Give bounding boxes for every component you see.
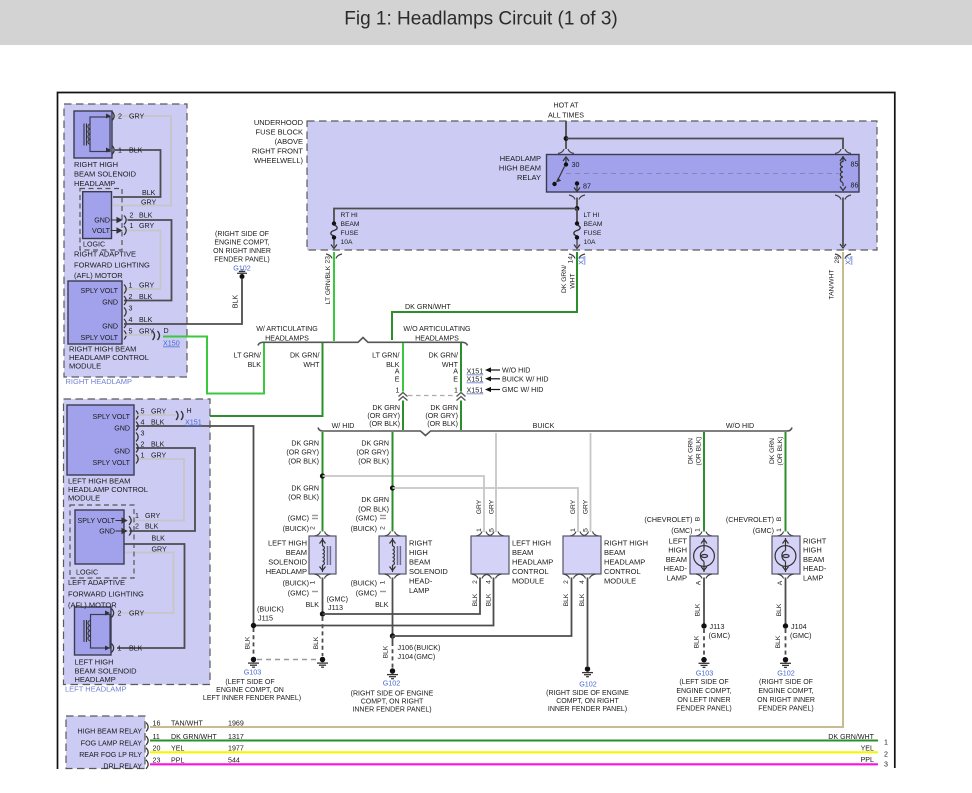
wire LT GRN/BLK from RT fuse down to brace (333, 252, 335, 341)
wire BLK module pin4 to ground G102 (124, 279, 242, 324)
wire BLK left module pin4 across to J115 (254, 578, 494, 626)
wire DK GRN/WHT branch to X151 inline (460, 343, 462, 392)
svg-text:WHEELWELL): WHEELWELL) (254, 156, 304, 165)
svg-text:BLK: BLK (248, 361, 262, 369)
connector entries at solenoid tops (315, 532, 331, 537)
inline connector X151 left chevrons (399, 393, 408, 401)
dashed BLK from J113 to ground (322, 617, 324, 656)
svg-text:DK GRN: DK GRN (361, 440, 389, 448)
svg-text:1: 1 (118, 645, 122, 653)
svg-text:BEAM: BEAM (803, 555, 824, 564)
pin arcs on relay block (146, 723, 148, 732)
svg-text:4: 4 (486, 580, 493, 584)
svg-text:FENDER PANEL): FENDER PANEL) (214, 257, 270, 264)
svg-text:BUICK W/ HID: BUICK W/ HID (502, 375, 549, 383)
lamp L3: left high beam solenoid headlamp (GMC/Buick) (309, 536, 336, 574)
svg-text:FOG LAMP RELAY: FOG LAMP RELAY (81, 740, 143, 748)
module U4: left high beam headlamp control module (mid) (471, 536, 509, 574)
svg-text:(GMC): (GMC) (356, 515, 377, 523)
junction on branch 1 (320, 473, 325, 478)
wire row 11 DK GRN/WHT 1317 (150, 740, 878, 742)
svg-text:(OR BLK): (OR BLK) (358, 458, 389, 466)
svg-text:2: 2 (130, 212, 134, 220)
wire LT GRN/BLK from X150 to brace (163, 337, 264, 394)
left headlamp assembly box (64, 399, 211, 685)
svg-text:4: 4 (141, 419, 145, 427)
svg-text:GRY: GRY (152, 546, 168, 554)
svg-text:B: B (776, 516, 783, 521)
svg-text:DK GRN: DK GRN (430, 404, 458, 412)
svg-text:GND: GND (99, 528, 115, 536)
ground G102 (under right module) (582, 666, 593, 676)
svg-text:WHT: WHT (570, 273, 577, 288)
lamp L2: left high beam solenoid headlamp (75, 607, 114, 655)
svg-text:(LEFT SIDE OF: (LEFT SIDE OF (679, 679, 728, 686)
wire DK GRN/WHT from LT fuse down and across (392, 252, 577, 340)
connector entries at module tops (476, 532, 492, 537)
svg-text:(AFL) MOTOR: (AFL) MOTOR (74, 271, 123, 280)
svg-text:LT GRN/: LT GRN/ (234, 352, 261, 360)
svg-text:Fig 1: Headlamps Circuit (1 of: Fig 1: Headlamps Circuit (1 of 3) (344, 9, 618, 30)
wire BLK right module pin2 across to J106 (393, 578, 572, 637)
lamp L4: right high beam solenoid headlamp (GMC/Buick) (379, 536, 406, 574)
svg-text:28: 28 (834, 256, 841, 264)
svg-text:BLK: BLK (245, 636, 252, 649)
svg-text:LAMP: LAMP (803, 573, 823, 582)
connector exit below relay pin 86 (835, 195, 851, 200)
svg-text:1: 1 (884, 739, 888, 747)
svg-text:RIGHT FRONT: RIGHT FRONT (252, 147, 304, 156)
svg-text:GRY: GRY (129, 610, 145, 618)
svg-text:GND: GND (94, 217, 110, 225)
svg-text:2: 2 (380, 526, 387, 530)
svg-text:COMPT, ON RIGHT: COMPT, ON RIGHT (556, 698, 619, 705)
svg-text:HEAD-: HEAD- (664, 564, 688, 573)
connector entry at relay pin 85 (835, 149, 851, 154)
wire: feed into relay pin 30 (565, 121, 567, 149)
svg-text:DK GRN/: DK GRN/ (561, 265, 568, 293)
dashed connector tie line (408, 395, 456, 397)
power feed HOT AT ALL TIMES (548, 102, 584, 120)
svg-text:GND: GND (102, 299, 118, 307)
svg-text:YEL: YEL (171, 745, 184, 753)
svg-text:GRY: GRY (145, 512, 161, 520)
svg-text:(OR GRY): (OR GRY) (367, 412, 400, 420)
svg-text:G103: G103 (696, 669, 714, 678)
svg-text:BEAM: BEAM (286, 548, 307, 557)
wire down to LT HI BEAM FUSE (576, 209, 578, 222)
svg-text:3: 3 (884, 761, 888, 769)
svg-text:DK GRN: DK GRN (688, 438, 695, 464)
svg-text:CONTROL: CONTROL (604, 567, 641, 576)
svg-text:GMC W/ HID: GMC W/ HID (502, 386, 543, 394)
svg-text:(OR GRY): (OR GRY) (286, 449, 319, 457)
svg-text:A: A (453, 368, 458, 376)
svg-text:B: B (695, 516, 702, 521)
svg-text:SPLY VOLT: SPLY VOLT (81, 287, 119, 295)
ground G102 (under right head-lamp) (780, 657, 791, 667)
svg-text:(OR BLK): (OR BLK) (369, 420, 400, 428)
svg-text:RIGHT: RIGHT (409, 539, 433, 548)
svg-text:4: 4 (129, 316, 133, 324)
wire GRY AFL stub to solenoid pin2 (117, 553, 174, 614)
svg-text:X150: X150 (163, 339, 180, 348)
svg-text:J104: J104 (398, 652, 414, 661)
svg-text:1: 1 (570, 528, 577, 532)
dashed BLK from J115 to ground (253, 628, 255, 656)
svg-text:(OR BLK): (OR BLK) (427, 420, 458, 428)
svg-text:20: 20 (153, 745, 161, 753)
svg-text:(OR BLK): (OR BLK) (288, 458, 319, 466)
junction on branch 2 (390, 485, 395, 490)
relay switch arm (558, 167, 565, 180)
svg-text:BLK: BLK (313, 636, 320, 649)
svg-text:ENGINE COMPT,: ENGINE COMPT, (676, 688, 731, 695)
ground G103 (under left head-lamp) (699, 657, 710, 667)
svg-text:FENDER PANEL): FENDER PANEL) (758, 706, 814, 713)
underhood fuse block (307, 121, 877, 250)
svg-text:2: 2 (129, 293, 133, 301)
svg-text:G102: G102 (777, 669, 795, 678)
outer schematic border (58, 93, 895, 770)
svg-text:1: 1 (380, 580, 387, 584)
svg-text:(BUICK): (BUICK) (283, 580, 309, 588)
svg-text:2: 2 (118, 113, 122, 121)
off-page labels right (828, 733, 874, 764)
svg-text:2: 2 (472, 580, 479, 584)
connector exit below relay pin 87 (569, 195, 585, 200)
brace: articulating headlamps split (258, 338, 468, 346)
svg-text:J115: J115 (258, 614, 273, 623)
svg-text:DK GRN: DK GRN (769, 438, 776, 464)
wire GRY solenoid pin2 to logic (113, 116, 171, 206)
svg-text:(OR BLK): (OR BLK) (777, 437, 784, 466)
svg-text:2: 2 (141, 441, 145, 449)
svg-text:H: H (187, 407, 192, 415)
svg-text:BEAM: BEAM (341, 221, 360, 228)
svg-text:LT HI: LT HI (584, 212, 600, 219)
svg-text:1: 1 (476, 528, 483, 532)
svg-text:BUICK: BUICK (533, 422, 555, 430)
svg-text:HEADLAMPS: HEADLAMPS (265, 335, 309, 343)
module pin5 GRY to connector X151 pin H (136, 414, 176, 416)
wire across to RT HI BEAM FUSE (334, 209, 577, 222)
svg-text:MODULE: MODULE (512, 577, 544, 586)
wire GRY BUICK to right module pin 5 (590, 433, 592, 532)
junction node on feed (564, 136, 569, 141)
svg-text:1: 1 (454, 387, 458, 395)
svg-text:BLK: BLK (775, 635, 782, 648)
svg-text:G102: G102 (383, 679, 401, 688)
svg-text:BLK: BLK (563, 593, 570, 606)
connector exit under RT fuse, pin 23 (326, 254, 342, 259)
svg-text:SPLY VOLT: SPLY VOLT (78, 517, 116, 525)
svg-text:BLK: BLK (472, 593, 479, 606)
wire BLK module pin2 to AFL GND (130, 448, 196, 531)
svg-text:(BUICK): (BUICK) (414, 644, 440, 652)
svg-text:544: 544 (228, 757, 240, 765)
svg-text:HEADLAMP: HEADLAMP (604, 558, 645, 567)
ground G102 (mid, right fender) (387, 668, 398, 678)
svg-text:DK GRN/: DK GRN/ (428, 352, 458, 360)
svg-text:(OR BLK): (OR BLK) (288, 494, 319, 502)
svg-text:5: 5 (489, 528, 496, 532)
svg-text:WHT: WHT (303, 361, 320, 369)
wire row 16 TAN/WHT 1969 (drawn with relay feed above) (153, 720, 244, 728)
relay block (bottom left) (66, 716, 145, 769)
wire BLK left module pin2 across to J113 (323, 578, 481, 615)
svg-text:(ABOVE: (ABOVE (275, 137, 303, 146)
svg-text:(GMC): (GMC) (356, 590, 377, 598)
svg-text:MODULE: MODULE (69, 362, 101, 371)
svg-text:RIGHT ADAPTIVE: RIGHT ADAPTIVE (74, 250, 136, 259)
wire GRY logic VOLT to module pin 1 (124, 231, 161, 290)
svg-text:W/ ARTICULATING: W/ ARTICULATING (256, 325, 318, 333)
svg-text:G103: G103 (244, 668, 262, 677)
svg-text:(OR GRY): (OR GRY) (425, 412, 458, 420)
svg-text:(BUICK): (BUICK) (257, 605, 284, 614)
right headlamp assembly box (64, 104, 187, 377)
wire BLK right module pin4 to ground G102 (587, 578, 589, 667)
svg-text:2: 2 (310, 526, 317, 530)
wire row 23 PPL 544 (150, 763, 878, 765)
svg-text:INNER FENDER PANEL): INNER FENDER PANEL) (352, 707, 431, 714)
svg-text:BEAM SOLENOID: BEAM SOLENOID (74, 170, 137, 179)
svg-text:SPLY VOLT: SPLY VOLT (81, 334, 119, 342)
svg-text:BEAM: BEAM (409, 558, 430, 567)
svg-text:HEADLAMP: HEADLAMP (266, 567, 307, 576)
svg-text:BLK: BLK (129, 147, 143, 155)
svg-text:GRY: GRY (141, 199, 157, 207)
svg-text:ON LEFT INNER: ON LEFT INNER (677, 697, 730, 704)
svg-text:BEAM: BEAM (512, 548, 533, 557)
svg-text:23: 23 (325, 256, 332, 264)
wire GRY junction2 to right module pin 1 (393, 488, 579, 532)
svg-text:(GMC): (GMC) (709, 631, 731, 640)
module pins 1-5 (124, 285, 126, 294)
svg-text:DK GRN/WHT: DK GRN/WHT (171, 733, 217, 741)
ground G102 (right fender) (237, 270, 247, 279)
svg-text:BLK: BLK (695, 603, 702, 616)
wire DK GRN branch W/HID 1 (322, 432, 324, 532)
wire GRY BUICK to left module pin 5 (495, 433, 497, 532)
svg-text:(RIGHT SIDE OF: (RIGHT SIDE OF (759, 679, 813, 686)
svg-text:REAR FOG LP RLY: REAR FOG LP RLY (79, 751, 142, 759)
wire row 20 YEL 1977 (150, 751, 878, 753)
svg-text:3: 3 (129, 305, 133, 313)
logic module of AFL motor (left) (70, 505, 134, 578)
svg-text:LAMP: LAMP (409, 586, 429, 595)
svg-text:2: 2 (563, 580, 570, 584)
svg-text:BLK: BLK (486, 593, 493, 606)
svg-text:BLK: BLK (151, 419, 165, 427)
svg-text:D: D (164, 327, 169, 335)
lamp L1: right high beam solenoid headlamp (74, 111, 114, 158)
underhood fuse block label (252, 118, 304, 165)
wire DK GRN W/O HID to right head-lamp (785, 432, 787, 532)
svg-text:(OR BLK): (OR BLK) (358, 506, 389, 514)
wire DK GRN branch W/HID 2 (392, 432, 394, 532)
svg-text:(BUICK): (BUICK) (351, 580, 377, 588)
svg-text:FORWARD LIGHTING: FORWARD LIGHTING (74, 261, 150, 270)
relay coil pins 85/86 (840, 157, 846, 161)
svg-text:BLK: BLK (129, 645, 143, 653)
wire BLK module pin4 down to J115 (136, 426, 254, 623)
wire BLK logic GND to module pin 2 (124, 220, 172, 301)
svg-text:ENGINE COMPT,: ENGINE COMPT, (758, 688, 813, 695)
wire LT GRN/BLK branch to X151 inline (402, 343, 404, 392)
module U3: left high beam headlamp control module (67, 405, 167, 503)
svg-text:FUSE: FUSE (584, 230, 602, 237)
svg-text:DK GRN: DK GRN (291, 485, 319, 493)
svg-text:J113: J113 (328, 603, 343, 612)
module U5: right high beam headlamp control module (mid) (563, 536, 601, 574)
wire DK GRN W/O HID to left head-lamp (703, 432, 705, 532)
svg-text:LEFT HIGH: LEFT HIGH (512, 539, 551, 548)
svg-text:ENGINE COMPT,: ENGINE COMPT, (214, 240, 269, 247)
svg-text:(LEFT SIDE OF: (LEFT SIDE OF (225, 679, 274, 686)
svg-text:HIGH BEAM: HIGH BEAM (499, 164, 541, 173)
headlamp high beam relay label (499, 154, 541, 182)
svg-text:LEFT: LEFT (669, 537, 688, 546)
svg-text:BLK: BLK (139, 316, 153, 324)
wire: feed across to relay coil pin 85 (566, 139, 843, 150)
svg-text:1: 1 (130, 222, 134, 230)
svg-text:RIGHT HIGH: RIGHT HIGH (74, 160, 118, 169)
svg-text:FORWARD LIGHTING: FORWARD LIGHTING (68, 590, 144, 599)
svg-text:GND: GND (102, 323, 118, 331)
svg-text:GND: GND (114, 425, 130, 433)
svg-text:SOLENOID: SOLENOID (268, 558, 307, 567)
svg-text:ON RIGHT INNER: ON RIGHT INNER (757, 697, 815, 704)
svg-text:5: 5 (583, 528, 590, 532)
svg-text:BLK: BLK (383, 645, 390, 658)
svg-text:BEAM: BEAM (604, 548, 625, 557)
svg-text:UNDERHOOD: UNDERHOOD (254, 118, 304, 127)
wire BLK middle solenoid down to J106/J104 (392, 578, 394, 637)
svg-text:1: 1 (396, 387, 400, 395)
svg-text:(RIGHT SIDE OF ENGINE: (RIGHT SIDE OF ENGINE (351, 691, 434, 698)
svg-text:BLK: BLK (152, 535, 166, 543)
svg-text:10A: 10A (584, 239, 596, 246)
svg-text:30: 30 (572, 161, 580, 169)
svg-text:3: 3 (141, 430, 145, 438)
svg-text:J104: J104 (791, 622, 807, 631)
svg-text:A: A (395, 368, 400, 376)
svg-text:VOLT: VOLT (92, 227, 111, 235)
connector exit under LT fuse, pin 14 of X1 (569, 254, 585, 259)
svg-text:MODULE: MODULE (68, 494, 100, 503)
svg-text:SPLY VOLT: SPLY VOLT (93, 459, 131, 467)
svg-text:LEFT HIGH: LEFT HIGH (268, 539, 307, 548)
svg-text:1317: 1317 (228, 733, 244, 741)
wire DK GRN/WHT branch to X151 pin H (186, 343, 323, 416)
svg-text:TAN/WHT: TAN/WHT (171, 720, 203, 728)
wire BLK solenoid pin1 to logic (113, 150, 161, 197)
svg-text:MODULE: MODULE (604, 577, 636, 586)
GRY pin labels above modules (476, 499, 590, 514)
relay U1: headlamp high beam relay box (547, 155, 860, 193)
svg-text:(RIGHT SIDE OF ENGINE: (RIGHT SIDE OF ENGINE (546, 690, 629, 697)
svg-text:1: 1 (118, 147, 122, 155)
svg-text:RIGHT HEADLAMP: RIGHT HEADLAMP (66, 377, 133, 386)
svg-text:BLK: BLK (694, 635, 701, 648)
svg-text:CONTROL: CONTROL (512, 567, 549, 576)
wire TAN/WHT from relay coil down right side (842, 198, 844, 247)
wire BLK left solenoid down to J113 junction (322, 578, 324, 615)
svg-text:(GMC): (GMC) (288, 515, 309, 523)
svg-text:14: 14 (568, 256, 575, 264)
svg-text:DK GRN: DK GRN (372, 404, 400, 412)
connector exit under relay coil, pin 28 of X2 (835, 254, 851, 259)
svg-text:PPL: PPL (171, 757, 184, 765)
svg-text:A: A (777, 580, 784, 585)
svg-text:GRY: GRY (489, 499, 496, 514)
svg-text:ON RIGHT INNER: ON RIGHT INNER (213, 248, 271, 255)
svg-text:2: 2 (118, 610, 122, 618)
svg-text:RT HI: RT HI (341, 212, 358, 219)
svg-text:(CHEVROLET): (CHEVROLET) (644, 516, 692, 524)
svg-text:(OR BLK): (OR BLK) (696, 437, 703, 466)
svg-text:2: 2 (135, 523, 139, 531)
svg-text:11: 11 (153, 733, 160, 741)
svg-text:GRY: GRY (151, 452, 167, 460)
svg-text:86: 86 (851, 182, 859, 190)
svg-text:1: 1 (135, 512, 139, 520)
svg-text:HEAD-: HEAD- (409, 577, 433, 586)
svg-text:LEFT INNER FENDER PANEL): LEFT INNER FENDER PANEL) (203, 695, 301, 702)
svg-text:1: 1 (776, 528, 783, 532)
svg-text:LT GRN/: LT GRN/ (372, 352, 399, 360)
svg-text:(RIGHT SIDE OF: (RIGHT SIDE OF (215, 231, 269, 238)
svg-text:HEADLAMP: HEADLAMP (500, 154, 541, 163)
svg-text:87: 87 (583, 183, 591, 191)
svg-text:DK GRN/WHT: DK GRN/WHT (828, 733, 874, 741)
svg-text:W/O ARTICULATING: W/O ARTICULATING (403, 325, 470, 333)
svg-text:4: 4 (579, 580, 586, 584)
brace: W/ HID - BUICK - W/O HID split (318, 428, 792, 436)
svg-text:J113: J113 (710, 622, 725, 631)
svg-text:RIGHT HIGH: RIGHT HIGH (604, 539, 648, 548)
inline connector X151 right chevrons (457, 393, 466, 401)
svg-text:ALL TIMES: ALL TIMES (548, 112, 584, 120)
svg-text:X2: X2 (844, 256, 853, 265)
svg-text:(GMC): (GMC) (288, 590, 309, 598)
svg-text:23: 23 (153, 757, 161, 765)
wire from pin 87 down (576, 198, 578, 209)
branch labels under brace (234, 352, 262, 370)
svg-text:RIGHT: RIGHT (803, 537, 827, 546)
svg-text:(GMC): (GMC) (790, 631, 812, 640)
svg-text:LAMP: LAMP (667, 573, 687, 582)
svg-text:(GMC): (GMC) (671, 527, 692, 535)
module U2: right high beam headlamp control module (68, 281, 122, 344)
svg-text:DK GRN: DK GRN (361, 496, 389, 504)
svg-text:LOGIC: LOGIC (76, 569, 98, 577)
svg-text:DK GRN/: DK GRN/ (290, 352, 320, 360)
svg-text:G102: G102 (233, 264, 251, 273)
svg-text:LOGIC: LOGIC (83, 241, 105, 249)
svg-text:(BUICK): (BUICK) (351, 525, 377, 533)
svg-text:16: 16 (153, 720, 161, 728)
svg-text:HEADLAMP: HEADLAMP (75, 675, 116, 684)
svg-text:FUSE: FUSE (341, 230, 359, 237)
fuse F1: RT HI BEAM FUSE 10A (332, 221, 336, 225)
svg-text:85: 85 (851, 161, 859, 169)
svg-text:BLK: BLK (232, 295, 240, 309)
svg-text:FENDER PANEL): FENDER PANEL) (676, 706, 732, 713)
dashed tie between ground points (257, 659, 319, 661)
